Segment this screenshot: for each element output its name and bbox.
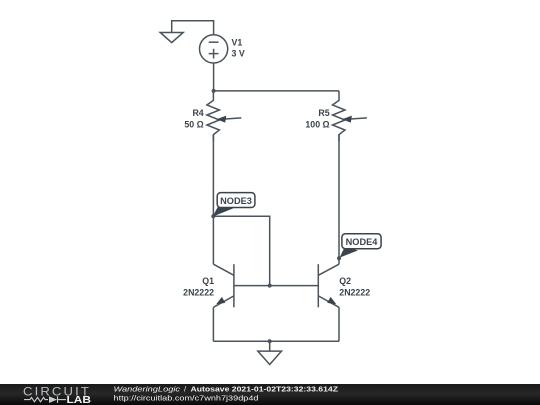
CircuitLab logo — [23, 384, 91, 405]
junction dot base node — [268, 284, 272, 288]
wire NODE3 branch to base node — [213, 216, 269, 285]
junction dot ground node — [268, 339, 272, 343]
wire ground GND1 to V1 top — [172, 21, 214, 35]
svg-text:NODE4: NODE4 — [346, 237, 379, 247]
wire base Q1 to Q2 — [234, 285, 318, 287]
wire left rail R4 to Q1 collector — [212, 135, 214, 265]
svg-text:LAB: LAB — [67, 395, 92, 405]
svg-text:NODE3: NODE3 — [220, 196, 252, 206]
svg-text:50 Ω: 50 Ω — [184, 120, 203, 130]
wire bottom rail — [213, 340, 339, 342]
svg-text:2N2222: 2N2222 — [183, 287, 214, 297]
ground GND2 (bottom) — [258, 341, 282, 364]
junction dot NODE4 — [337, 256, 341, 260]
svg-text:Autosave 2021-01-02T23:32:33.6: Autosave 2021-01-02T23:32:33.614Z — [191, 384, 339, 393]
label V1 3 V — [232, 38, 245, 59]
label Q1 2N2222 — [183, 276, 214, 297]
junction dot at V1 output node — [212, 89, 216, 93]
node NODE4 flag — [340, 234, 382, 258]
footer bar — [0, 384, 540, 405]
node NODE3 flag — [213, 193, 255, 217]
svg-text:WanderingLogic: WanderingLogic — [114, 384, 181, 393]
svg-text:Q2: Q2 — [339, 276, 351, 286]
svg-text:3 V: 3 V — [232, 49, 245, 59]
svg-text:V1: V1 — [232, 38, 243, 48]
label Q2 2N2222 — [339, 276, 370, 297]
svg-text:http://circuitlab.com/c7wnh7j3: http://circuitlab.com/c7wnh7j39dp4d — [114, 393, 259, 402]
transistor Q2 2N2222 — [318, 264, 339, 307]
footer attribution text — [114, 384, 339, 402]
svg-text:Q1: Q1 — [202, 276, 214, 286]
resistor R4 50 ohm variable — [207, 91, 241, 141]
label R5 100 ohm — [305, 108, 329, 130]
wire Q1 emitter down — [212, 307, 214, 341]
wire right rail R5 to Q2 collector — [338, 135, 340, 265]
label R4 50 ohm — [184, 108, 203, 130]
wire Q2 emitter down — [338, 307, 340, 341]
voltage source V1 — [200, 35, 228, 63]
wire top rail — [213, 90, 339, 92]
svg-text:100 Ω: 100 Ω — [305, 120, 329, 130]
svg-text:R5: R5 — [318, 108, 329, 118]
ground GND1 (top) — [160, 33, 183, 43]
wire V1 bottom to junction — [213, 63, 215, 91]
svg-text:2N2222: 2N2222 — [339, 287, 370, 297]
transistor Q1 2N2222 — [213, 264, 234, 307]
junction dot NODE3 — [211, 214, 215, 218]
resistor R5 100 ohm variable — [333, 91, 367, 141]
svg-text:R4: R4 — [192, 108, 203, 118]
